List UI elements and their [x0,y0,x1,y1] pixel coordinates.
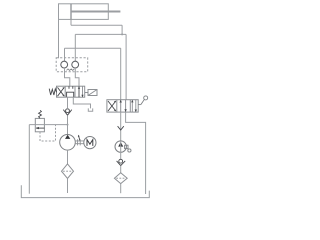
wire CV1 to valve port A [65,68,70,86]
wire to filter F2 [120,166,122,173]
flow meter circle [115,141,126,152]
valve V2 crossed arrows [108,101,116,111]
wire H1 rod-end horizontal [71,24,122,26]
node J1 [121,33,123,35]
check valve CV4 ball [119,159,123,163]
check valve CV2 circle [72,61,79,68]
node J2 [67,124,69,126]
relief valve spring [39,110,42,118]
wire left-circle stem [64,48,66,61]
check valve CV3 ball [66,109,70,113]
wire pump suction [67,150,69,164]
relief valve through line [29,124,67,126]
check valve CV1 circle [61,61,68,68]
motor M label [87,140,93,146]
check valve CV3 seat [63,110,72,116]
wire H3 horizontal [65,47,121,49]
wire rod-end port drop [70,19,72,25]
filter F2 mesh [116,177,125,179]
filter F1 diamond [62,164,74,179]
wire V2 right port jog to tank [126,112,146,194]
lever of valve V2 [138,96,148,105]
wire H1-H2 drop [121,25,123,34]
valve V2 second-position arrows [131,100,137,112]
wire right-circle stem [74,34,76,61]
motor M circle [84,137,96,149]
wire CV2 to valve port B [75,68,79,86]
check block enclosure (dashed) [56,58,87,72]
relief valve internal arrow [36,127,45,129]
rotation arrow on shaft [78,135,80,141]
flow meter triangle [118,142,123,147]
spring W of valve V1 [49,89,56,95]
pump P1 outlet triangle [65,135,70,139]
check block inner link [67,69,75,71]
wire relief drain to tank [28,125,30,194]
relief valve RV square [35,118,44,131]
wire B long vertical [125,34,127,99]
wire F2 into tank [120,184,122,194]
filter F2 diamond [114,173,127,184]
pump shaft coupling [75,139,84,145]
wire V2 left port down [120,112,122,141]
valve V1 through arrows [78,86,84,97]
pump P1 circle [60,135,76,151]
wire pump pressure line [67,115,69,135]
wire A long vertical [120,48,122,99]
cylinder piston [70,4,72,20]
wire suction into tank [67,179,69,194]
filter F1 mesh [63,170,72,172]
drain tank symbol [88,108,92,111]
valve V2 through lines [120,100,127,112]
cylinder body [59,4,109,20]
tank reservoir [21,185,149,197]
valve V1 crossed arrows [58,87,65,96]
solenoid of valve V1 [85,90,97,96]
valve V1 closed-center stubs [67,86,74,97]
flow arrowhead [118,126,124,130]
wire H2 horizontal [75,33,126,35]
valve V2 body [107,100,138,112]
valve V1 body [57,86,85,97]
flow meter side attachment [125,145,131,152]
check valve CV4 seat [117,161,126,166]
relief valve pilot line (dashed) [40,125,56,141]
wire V1 T-port drain [73,97,90,108]
wire V1 P-port to check valve [68,97,93,111]
cylinder piston rod [71,11,120,13]
flow meter line through [120,141,122,160]
wire cap-end line [58,19,60,58]
